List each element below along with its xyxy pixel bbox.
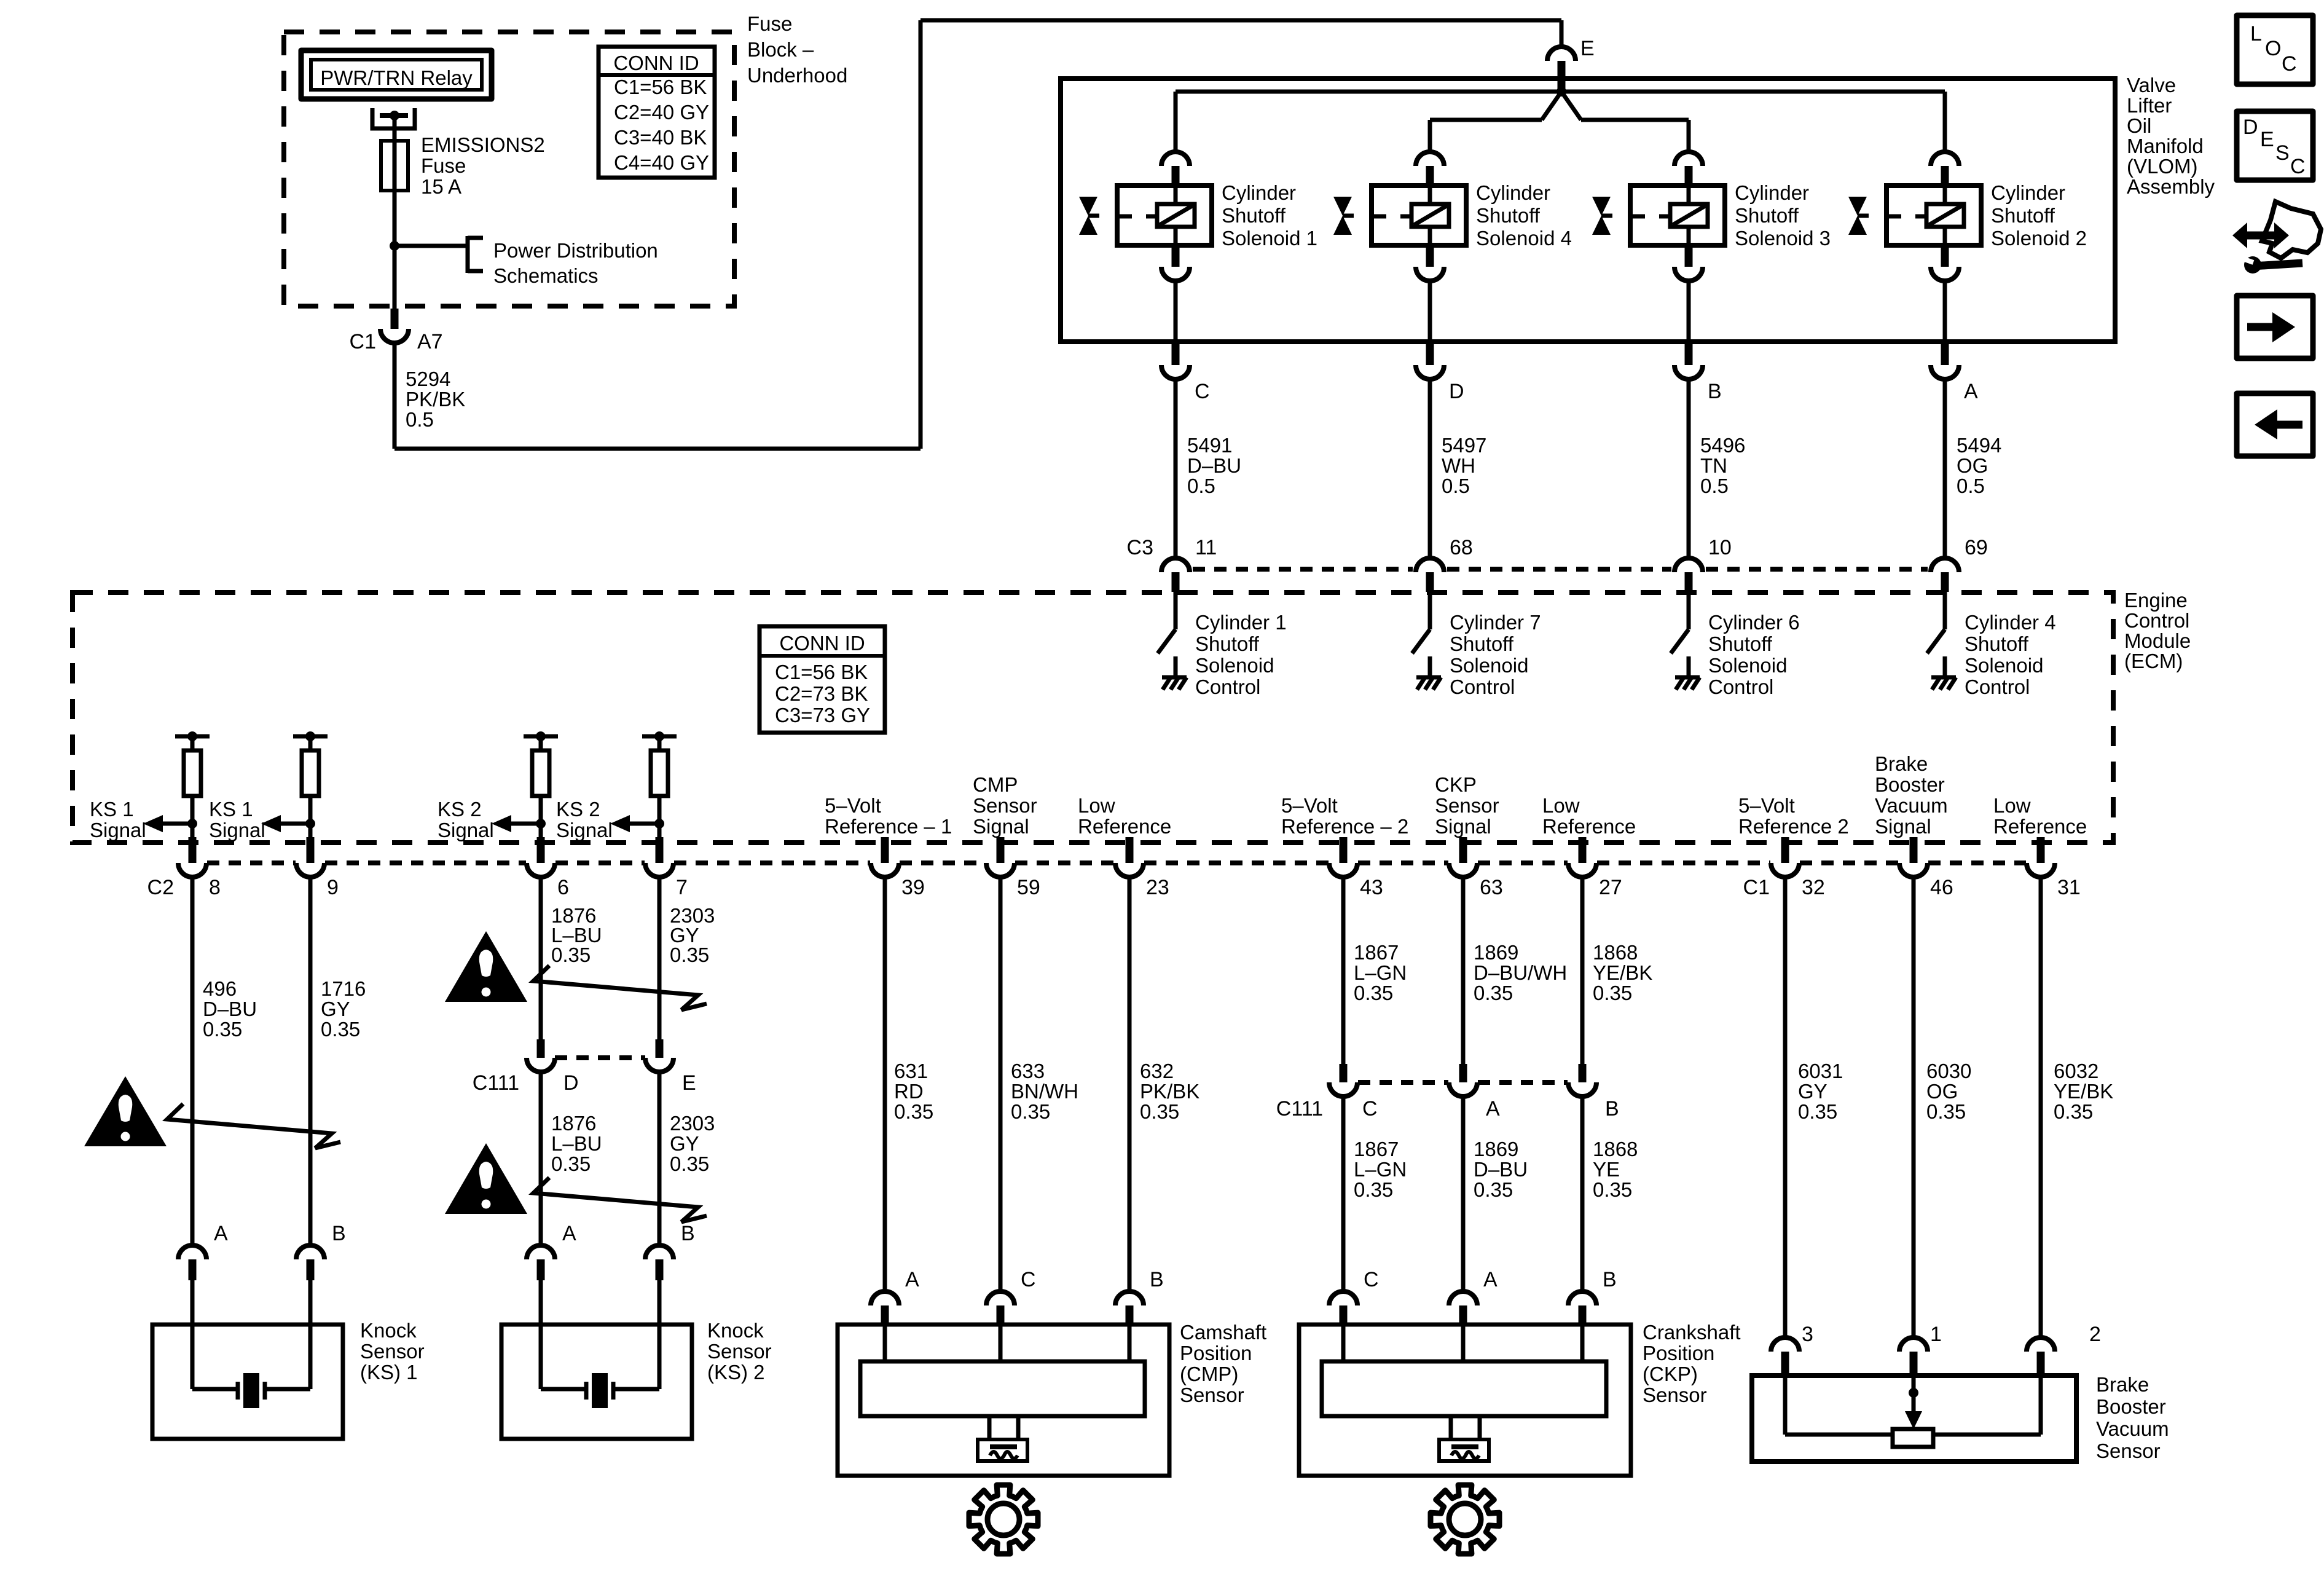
svg-text:6032: 6032 bbox=[2054, 1060, 2098, 1082]
svg-text:PWR/TRN Relay: PWR/TRN Relay bbox=[320, 66, 473, 89]
svg-text:0.5: 0.5 bbox=[1700, 474, 1729, 497]
cylinder shutoff solenoid 3 bbox=[1674, 152, 1703, 166]
svg-text:0.35: 0.35 bbox=[551, 943, 591, 966]
svg-text:Signal: Signal bbox=[973, 815, 1029, 838]
cylinder 7 shutoff solenoid control driver bbox=[1428, 592, 1432, 629]
ground bbox=[1675, 675, 1700, 680]
svg-text:Reference 2: Reference 2 bbox=[1738, 815, 1849, 838]
connector C111 (CKP) bbox=[1358, 1080, 1448, 1085]
svg-text:EMISSIONS2: EMISSIONS2 bbox=[421, 133, 545, 156]
svg-text:YE/BK: YE/BK bbox=[2054, 1080, 2113, 1103]
svg-text:69: 69 bbox=[1965, 536, 1988, 559]
junction node bbox=[390, 241, 399, 251]
solenoid 3 lower connector bbox=[1685, 245, 1693, 267]
wire 631 RD bbox=[883, 877, 887, 1291]
svg-text:D–BU/WH: D–BU/WH bbox=[1474, 961, 1567, 984]
svg-text:59: 59 bbox=[1017, 876, 1040, 899]
ECM pin 43 connector bbox=[1340, 837, 1348, 863]
svg-text:BN/WH: BN/WH bbox=[1011, 1080, 1078, 1103]
ECM pin 32 connector bbox=[1781, 837, 1789, 863]
svg-text:A: A bbox=[562, 1222, 576, 1245]
svg-text:D: D bbox=[1449, 380, 1464, 403]
svg-text:D: D bbox=[2243, 116, 2258, 139]
chafed-wire zigzag pointer bbox=[533, 1178, 707, 1222]
svg-text:OG: OG bbox=[1957, 454, 1988, 477]
svg-text:0.35: 0.35 bbox=[670, 943, 709, 966]
ground bbox=[1931, 675, 1956, 680]
svg-text:E: E bbox=[1580, 37, 1595, 60]
svg-text:Shutoff: Shutoff bbox=[1965, 632, 2029, 655]
knock sensor 1 pins bbox=[178, 1245, 206, 1259]
svg-text:CONN ID: CONN ID bbox=[779, 632, 865, 655]
svg-text:Position: Position bbox=[1180, 1342, 1252, 1364]
svg-text:Block –: Block – bbox=[747, 38, 814, 61]
valve symbol solenoid 4 bbox=[1333, 197, 1352, 216]
svg-text:1876: 1876 bbox=[551, 1112, 596, 1135]
connector E bbox=[1560, 20, 1564, 47]
svg-text:Shutoff: Shutoff bbox=[1735, 204, 1799, 227]
svg-text:Fuse: Fuse bbox=[421, 154, 466, 177]
wire 1876 L-BU upper segment bbox=[539, 877, 543, 1039]
svg-text:Low: Low bbox=[1993, 794, 2031, 817]
svg-text:Control: Control bbox=[2124, 609, 2189, 632]
svg-text:2: 2 bbox=[2089, 1323, 2101, 1346]
signal arrow KS 2 bbox=[630, 822, 659, 826]
connector C111 pin (1868 YE/BK) bbox=[1579, 1064, 1587, 1082]
svg-text:Shutoff: Shutoff bbox=[1708, 632, 1773, 655]
ECM pin 6 connector bbox=[537, 837, 545, 863]
svg-text:Control: Control bbox=[1708, 675, 1773, 698]
svg-text:A: A bbox=[905, 1268, 919, 1291]
wire 6032 YE/BK bbox=[2039, 877, 2043, 1337]
svg-text:5497: 5497 bbox=[1442, 434, 1486, 457]
potentiometer bbox=[1783, 1376, 1788, 1435]
svg-text:Reference: Reference bbox=[1542, 815, 1636, 838]
svg-text:0.35: 0.35 bbox=[1593, 1178, 1632, 1201]
brake booster vacuum sensor pins bbox=[1771, 1337, 1799, 1352]
wire 5491 D–BU bbox=[1174, 379, 1178, 558]
svg-text:1869: 1869 bbox=[1474, 941, 1518, 964]
svg-text:Booster: Booster bbox=[2096, 1395, 2166, 1418]
svg-text:C: C bbox=[1364, 1268, 1379, 1291]
svg-text:C: C bbox=[1021, 1268, 1036, 1291]
connector C111 pin (1876 L-BU) bbox=[537, 1039, 545, 1058]
svg-text:PK/BK: PK/BK bbox=[1140, 1080, 1199, 1103]
svg-text:C1: C1 bbox=[1743, 876, 1770, 899]
ECM pin 23 connector bbox=[1126, 837, 1134, 863]
svg-text:Cylinder: Cylinder bbox=[1476, 181, 1550, 204]
warning symbol triangle bbox=[445, 1143, 527, 1214]
connector C1 A7 bbox=[391, 309, 399, 329]
resistor network pin (KS 2) bbox=[642, 734, 677, 739]
svg-text:CKP: CKP bbox=[1435, 773, 1477, 796]
svg-text:0.35: 0.35 bbox=[1593, 982, 1632, 1004]
svg-text:Shutoff: Shutoff bbox=[1991, 204, 2055, 227]
wire 632 PK/BK bbox=[1128, 877, 1132, 1291]
svg-text:B: B bbox=[332, 1222, 346, 1245]
svg-text:KS 1: KS 1 bbox=[209, 798, 253, 821]
svg-text:Signal: Signal bbox=[556, 819, 613, 841]
svg-text:C: C bbox=[1195, 380, 1210, 403]
svg-text:1716: 1716 bbox=[321, 977, 366, 1000]
svg-text:Signal: Signal bbox=[209, 819, 265, 841]
VLOM pin B connector bbox=[1685, 344, 1693, 365]
junction at E split bbox=[1557, 87, 1566, 96]
svg-text:Sensor: Sensor bbox=[1643, 1384, 1707, 1406]
svg-text:E: E bbox=[2260, 128, 2274, 151]
svg-text:32: 32 bbox=[1802, 876, 1825, 899]
fuse block underhood dashed box bbox=[284, 32, 734, 306]
svg-text:C1=56 BK: C1=56 BK bbox=[614, 76, 707, 98]
svg-text:Solenoid 3: Solenoid 3 bbox=[1735, 227, 1831, 250]
knock sensor 2 pins bbox=[527, 1245, 555, 1259]
svg-text:15 A: 15 A bbox=[421, 175, 461, 198]
svg-text:A: A bbox=[214, 1222, 228, 1245]
svg-text:Shutoff: Shutoff bbox=[1476, 204, 1541, 227]
wire 1716 GY (pin 9 to KS1 B) bbox=[308, 877, 313, 1245]
Crankshaft sensor box bbox=[1299, 1325, 1631, 1476]
svg-text:8: 8 bbox=[209, 876, 221, 899]
svg-text:Power Distribution: Power Distribution bbox=[493, 239, 658, 262]
svg-text:RD: RD bbox=[894, 1080, 924, 1103]
svg-text:Control: Control bbox=[1195, 675, 1260, 698]
ECM pin 31 connector bbox=[2037, 837, 2045, 863]
svg-text:0.35: 0.35 bbox=[1140, 1100, 1179, 1123]
resistor network pin (KS 2) bbox=[524, 734, 558, 739]
svg-text:Solenoid: Solenoid bbox=[1195, 654, 1274, 677]
wire 5496 TN bbox=[1687, 379, 1691, 558]
svg-text:5496: 5496 bbox=[1700, 434, 1745, 457]
relay contact terminal bbox=[372, 108, 415, 128]
svg-text:Signal: Signal bbox=[438, 819, 494, 841]
wire junction down to C1 connector bbox=[393, 246, 397, 309]
svg-text:D: D bbox=[563, 1071, 579, 1095]
svg-text:9: 9 bbox=[327, 876, 339, 899]
wire 1869 D-BU/WH upper segment bbox=[1461, 877, 1466, 1064]
solenoid 2 lower connector bbox=[1941, 245, 1949, 267]
Camshaft reluctor gear bbox=[969, 1485, 1038, 1554]
svg-text:1: 1 bbox=[1930, 1323, 1942, 1346]
ECM pin 69 connector bbox=[1931, 558, 1959, 572]
svg-text:Cylinder: Cylinder bbox=[1735, 181, 1809, 204]
Crankshaft sensor pins bbox=[1329, 1291, 1357, 1305]
svg-text:C1=56 BK: C1=56 BK bbox=[775, 661, 868, 683]
svg-text:B: B bbox=[1603, 1268, 1617, 1291]
Camshaft sensor pins bbox=[871, 1291, 899, 1305]
wire 2303 GY lower segment bbox=[658, 1072, 662, 1245]
svg-text:27: 27 bbox=[1599, 876, 1622, 899]
CONN ID table (fuse block) bbox=[599, 47, 715, 178]
svg-text:KS 2: KS 2 bbox=[438, 798, 482, 821]
ECM pin 9 connector bbox=[307, 837, 315, 863]
ground bbox=[1416, 675, 1441, 680]
piezo element KS 1 bbox=[190, 1325, 195, 1389]
svg-text:L–GN: L–GN bbox=[1354, 961, 1407, 984]
svg-text:0.35: 0.35 bbox=[2054, 1100, 2093, 1123]
svg-text:5294: 5294 bbox=[406, 368, 450, 390]
svg-text:7: 7 bbox=[676, 876, 688, 899]
wire 633 BN/WH bbox=[999, 877, 1003, 1291]
svg-text:Assembly: Assembly bbox=[2127, 175, 2215, 198]
wire 1867 L-GN upper segment bbox=[1341, 877, 1346, 1064]
svg-text:46: 46 bbox=[1930, 876, 1953, 899]
Crankshaft reluctor gear bbox=[1431, 1485, 1499, 1554]
svg-text:WH: WH bbox=[1442, 454, 1475, 477]
svg-text:23: 23 bbox=[1146, 876, 1169, 899]
svg-text:Cylinder: Cylinder bbox=[1222, 181, 1296, 204]
ECM bottom dotted connector line bbox=[207, 860, 296, 865]
svg-text:Valve: Valve bbox=[2127, 74, 2176, 96]
svg-text:C: C bbox=[2290, 155, 2306, 178]
ECM dashed box bbox=[73, 593, 2113, 843]
svg-text:C2: C2 bbox=[147, 876, 174, 899]
C3 dotted connector line bbox=[1193, 567, 1413, 572]
Crankshaft sensor connector symbol bbox=[1449, 1416, 1453, 1439]
svg-text:E: E bbox=[682, 1071, 696, 1095]
svg-text:5–Volt: 5–Volt bbox=[825, 794, 881, 817]
Camshaft sensor connector symbol bbox=[987, 1416, 992, 1439]
svg-text:Fuse: Fuse bbox=[747, 12, 792, 35]
svg-text:5491: 5491 bbox=[1187, 434, 1232, 457]
svg-text:0.35: 0.35 bbox=[1474, 982, 1513, 1004]
svg-text:GY: GY bbox=[670, 1132, 699, 1155]
svg-text:43: 43 bbox=[1360, 876, 1383, 899]
ECM pin 7 connector bbox=[656, 837, 664, 863]
solenoid 4 lower connector bbox=[1426, 245, 1434, 267]
svg-text:0.35: 0.35 bbox=[670, 1152, 709, 1175]
svg-text:KS 1: KS 1 bbox=[90, 798, 134, 821]
signal arrow KS 1 bbox=[281, 822, 310, 826]
svg-text:(KS) 1: (KS) 1 bbox=[360, 1361, 418, 1384]
svg-text:A: A bbox=[1483, 1268, 1498, 1291]
svg-text:Signal: Signal bbox=[1875, 815, 1931, 838]
signal arrow KS 2 bbox=[511, 822, 541, 826]
wire C1 to VLOM E (long routing) bbox=[393, 343, 397, 449]
svg-text:Solenoid 1: Solenoid 1 bbox=[1222, 227, 1317, 250]
svg-text:0.35: 0.35 bbox=[203, 1018, 242, 1041]
ground bbox=[1162, 675, 1187, 680]
svg-text:Brake: Brake bbox=[1875, 752, 1928, 775]
piezo element KS 2 bbox=[539, 1325, 543, 1389]
svg-text:B: B bbox=[1605, 1097, 1619, 1120]
icon forward arrow box bbox=[2237, 296, 2313, 358]
cylinder shutoff solenoid 2 bbox=[1931, 152, 1959, 166]
svg-text:L–GN: L–GN bbox=[1354, 1158, 1407, 1181]
svg-text:C: C bbox=[2282, 52, 2297, 76]
svg-text:0.35: 0.35 bbox=[1354, 982, 1393, 1004]
svg-text:0.35: 0.35 bbox=[1798, 1100, 1837, 1123]
svg-text:C2=73 BK: C2=73 BK bbox=[775, 682, 868, 705]
knock sensor 2 box bbox=[501, 1325, 692, 1439]
svg-text:0.35: 0.35 bbox=[1354, 1178, 1393, 1201]
signal arrow KS 1 bbox=[163, 822, 192, 826]
svg-text:Solenoid 4: Solenoid 4 bbox=[1476, 227, 1572, 250]
connector C111 pin (1867 L-GN) bbox=[1340, 1064, 1348, 1082]
cylinder 4 shutoff solenoid control driver bbox=[1943, 592, 1947, 629]
svg-text:C1: C1 bbox=[350, 330, 376, 353]
valve symbol solenoid 3 bbox=[1592, 197, 1611, 216]
svg-text:C4=40 GY: C4=40 GY bbox=[614, 151, 709, 174]
bus wire solenoid 1 to 2 bbox=[1176, 90, 1945, 94]
svg-text:L: L bbox=[2250, 22, 2262, 45]
wire relay to fuse bbox=[393, 116, 397, 141]
svg-text:0.5: 0.5 bbox=[406, 408, 434, 431]
connector C111 pin (1869 D-BU/WH) bbox=[1459, 1064, 1467, 1082]
svg-text:Vacuum: Vacuum bbox=[1875, 794, 1948, 817]
svg-text:KS 2: KS 2 bbox=[556, 798, 600, 821]
svg-text:Position: Position bbox=[1643, 1342, 1714, 1364]
svg-text:Reference: Reference bbox=[1078, 815, 1171, 838]
wire 1876 L-BU lower segment bbox=[539, 1072, 543, 1245]
svg-text:D–BU: D–BU bbox=[1474, 1158, 1528, 1181]
svg-text:(VLOM): (VLOM) bbox=[2127, 155, 2198, 178]
svg-text:Cylinder 6: Cylinder 6 bbox=[1708, 611, 1800, 634]
svg-text:68: 68 bbox=[1450, 536, 1473, 559]
svg-text:631: 631 bbox=[894, 1060, 928, 1082]
svg-text:C3=73 GY: C3=73 GY bbox=[775, 704, 870, 726]
svg-text:0.35: 0.35 bbox=[1011, 1100, 1050, 1123]
power distribution schematics bracket bbox=[466, 236, 470, 273]
svg-text:Solenoid: Solenoid bbox=[1450, 654, 1528, 677]
VLOM pin C connector bbox=[1172, 344, 1180, 365]
svg-text:Sensor: Sensor bbox=[1180, 1384, 1244, 1406]
wire lower segment (1869 D-BU/WH) bbox=[1461, 1097, 1466, 1291]
Camshaft sensor box bbox=[838, 1325, 1169, 1476]
svg-text:Cylinder 4: Cylinder 4 bbox=[1965, 611, 2056, 634]
svg-text:496: 496 bbox=[203, 977, 237, 1000]
svg-text:Cylinder: Cylinder bbox=[1991, 181, 2065, 204]
svg-text:GY: GY bbox=[1798, 1080, 1827, 1103]
svg-text:(CMP): (CMP) bbox=[1180, 1363, 1238, 1385]
svg-text:Lifter: Lifter bbox=[2127, 94, 2172, 117]
svg-text:(KS) 2: (KS) 2 bbox=[707, 1361, 765, 1384]
svg-text:5–Volt: 5–Volt bbox=[1281, 794, 1338, 817]
warning symbol triangle bbox=[84, 1076, 167, 1146]
svg-text:Solenoid: Solenoid bbox=[1708, 654, 1787, 677]
svg-text:Cylinder 7: Cylinder 7 bbox=[1450, 611, 1541, 634]
wire fuse to junction bbox=[393, 191, 397, 246]
svg-text:Knock: Knock bbox=[360, 1319, 417, 1342]
wire 5494 OG bbox=[1943, 379, 1947, 558]
svg-text:YE/BK: YE/BK bbox=[1593, 961, 1652, 984]
svg-text:Sensor: Sensor bbox=[707, 1340, 772, 1363]
ECM pin 68 connector bbox=[1416, 558, 1444, 572]
svg-text:Reference – 2: Reference – 2 bbox=[1281, 815, 1408, 838]
VLOM assembly box bbox=[1061, 79, 2115, 342]
icon hand with wrench bbox=[2244, 232, 2277, 240]
brake booster vacuum sensor box bbox=[1752, 1376, 2076, 1462]
icon DESC box bbox=[2237, 111, 2313, 180]
svg-text:Shutoff: Shutoff bbox=[1222, 204, 1286, 227]
svg-text:Oil: Oil bbox=[2127, 114, 2151, 137]
ECM pin 27 connector bbox=[1579, 837, 1587, 863]
svg-text:632: 632 bbox=[1140, 1060, 1174, 1082]
VLOM pin A connector bbox=[1941, 344, 1949, 365]
CONN ID table (ECM) bbox=[760, 626, 885, 733]
svg-text:O: O bbox=[2265, 37, 2281, 60]
fuse EMISSIONS2 15A bbox=[393, 141, 397, 191]
svg-text:Sensor: Sensor bbox=[1435, 794, 1499, 817]
svg-text:A7: A7 bbox=[417, 330, 443, 353]
svg-text:6: 6 bbox=[557, 876, 569, 899]
svg-text:3: 3 bbox=[1802, 1323, 1813, 1346]
svg-text:CONN ID: CONN ID bbox=[613, 52, 699, 74]
svg-text:Signal: Signal bbox=[1435, 815, 1491, 838]
warning symbol triangle bbox=[445, 931, 527, 1002]
svg-text:D–BU: D–BU bbox=[1187, 454, 1241, 477]
svg-text:Solenoid: Solenoid bbox=[1965, 654, 2043, 677]
svg-text:0.35: 0.35 bbox=[1474, 1178, 1513, 1201]
svg-text:Vacuum: Vacuum bbox=[2096, 1417, 2169, 1440]
svg-text:10: 10 bbox=[1708, 536, 1732, 559]
cylinder 6 shutoff solenoid control driver bbox=[1687, 592, 1691, 629]
VLOM pin D connector bbox=[1426, 344, 1434, 365]
svg-text:1867: 1867 bbox=[1354, 1138, 1399, 1160]
svg-text:B: B bbox=[681, 1222, 695, 1245]
svg-text:C: C bbox=[1362, 1097, 1378, 1120]
icon LOC box bbox=[2237, 15, 2313, 84]
solenoid 1 lower connector bbox=[1172, 245, 1180, 267]
drop wires to solenoids bbox=[1174, 92, 1178, 152]
svg-text:(ECM): (ECM) bbox=[2124, 650, 2183, 672]
chafed-wire zigzag pointer bbox=[533, 966, 707, 1010]
svg-text:Underhood: Underhood bbox=[747, 64, 847, 87]
chafed-wire zigzag pointer bbox=[167, 1104, 340, 1148]
wire lower segment (1868 YE/BK) bbox=[1580, 1097, 1585, 1291]
svg-text:Camshaft: Camshaft bbox=[1180, 1321, 1266, 1344]
svg-text:Booster: Booster bbox=[1875, 773, 1945, 796]
svg-text:Control: Control bbox=[1450, 675, 1515, 698]
svg-text:Module: Module bbox=[2124, 629, 2191, 652]
svg-text:Schematics: Schematics bbox=[493, 264, 599, 287]
svg-text:TN: TN bbox=[1700, 454, 1727, 477]
svg-text:B: B bbox=[1708, 380, 1722, 403]
svg-text:Solenoid 2: Solenoid 2 bbox=[1991, 227, 2087, 250]
wiper arrow bbox=[1912, 1376, 1916, 1393]
svg-text:Manifold: Manifold bbox=[2127, 135, 2204, 157]
connector C111 (KS2) bbox=[555, 1055, 645, 1060]
svg-text:0.5: 0.5 bbox=[1187, 474, 1215, 497]
svg-text:5494: 5494 bbox=[1957, 434, 2001, 457]
svg-text:C3=40 BK: C3=40 BK bbox=[614, 126, 707, 149]
svg-text:0.35: 0.35 bbox=[321, 1018, 360, 1041]
ECM pin 10 connector bbox=[1674, 558, 1703, 572]
svg-text:Cylinder 1: Cylinder 1 bbox=[1195, 611, 1287, 634]
svg-text:Crankshaft: Crankshaft bbox=[1643, 1321, 1741, 1344]
svg-text:D–BU: D–BU bbox=[203, 998, 257, 1020]
svg-text:1868: 1868 bbox=[1593, 941, 1638, 964]
wire lower segment (1867 L-GN) bbox=[1341, 1097, 1346, 1291]
wire 5497 WH bbox=[1428, 379, 1432, 558]
wire 1868 YE/BK upper segment bbox=[1580, 877, 1585, 1064]
svg-text:39: 39 bbox=[901, 876, 925, 899]
resistor network pin (KS 1) bbox=[175, 734, 210, 739]
svg-text:PK/BK: PK/BK bbox=[406, 388, 465, 411]
svg-text:0.5: 0.5 bbox=[1957, 474, 1985, 497]
PWR/TRN Relay bbox=[301, 50, 492, 99]
svg-text:OG: OG bbox=[1926, 1080, 1958, 1103]
svg-text:Knock: Knock bbox=[707, 1319, 764, 1342]
svg-text:B: B bbox=[1150, 1268, 1164, 1291]
valve symbol solenoid 2 bbox=[1848, 197, 1867, 216]
svg-text:1869: 1869 bbox=[1474, 1138, 1518, 1160]
ECM pin 11 connector bbox=[1161, 558, 1190, 572]
svg-text:0.5: 0.5 bbox=[1442, 474, 1470, 497]
wire 2303 GY upper segment bbox=[658, 877, 662, 1039]
svg-text:C111: C111 bbox=[473, 1071, 519, 1095]
svg-text:63: 63 bbox=[1480, 876, 1503, 899]
ECM pin 39 connector bbox=[881, 837, 889, 863]
